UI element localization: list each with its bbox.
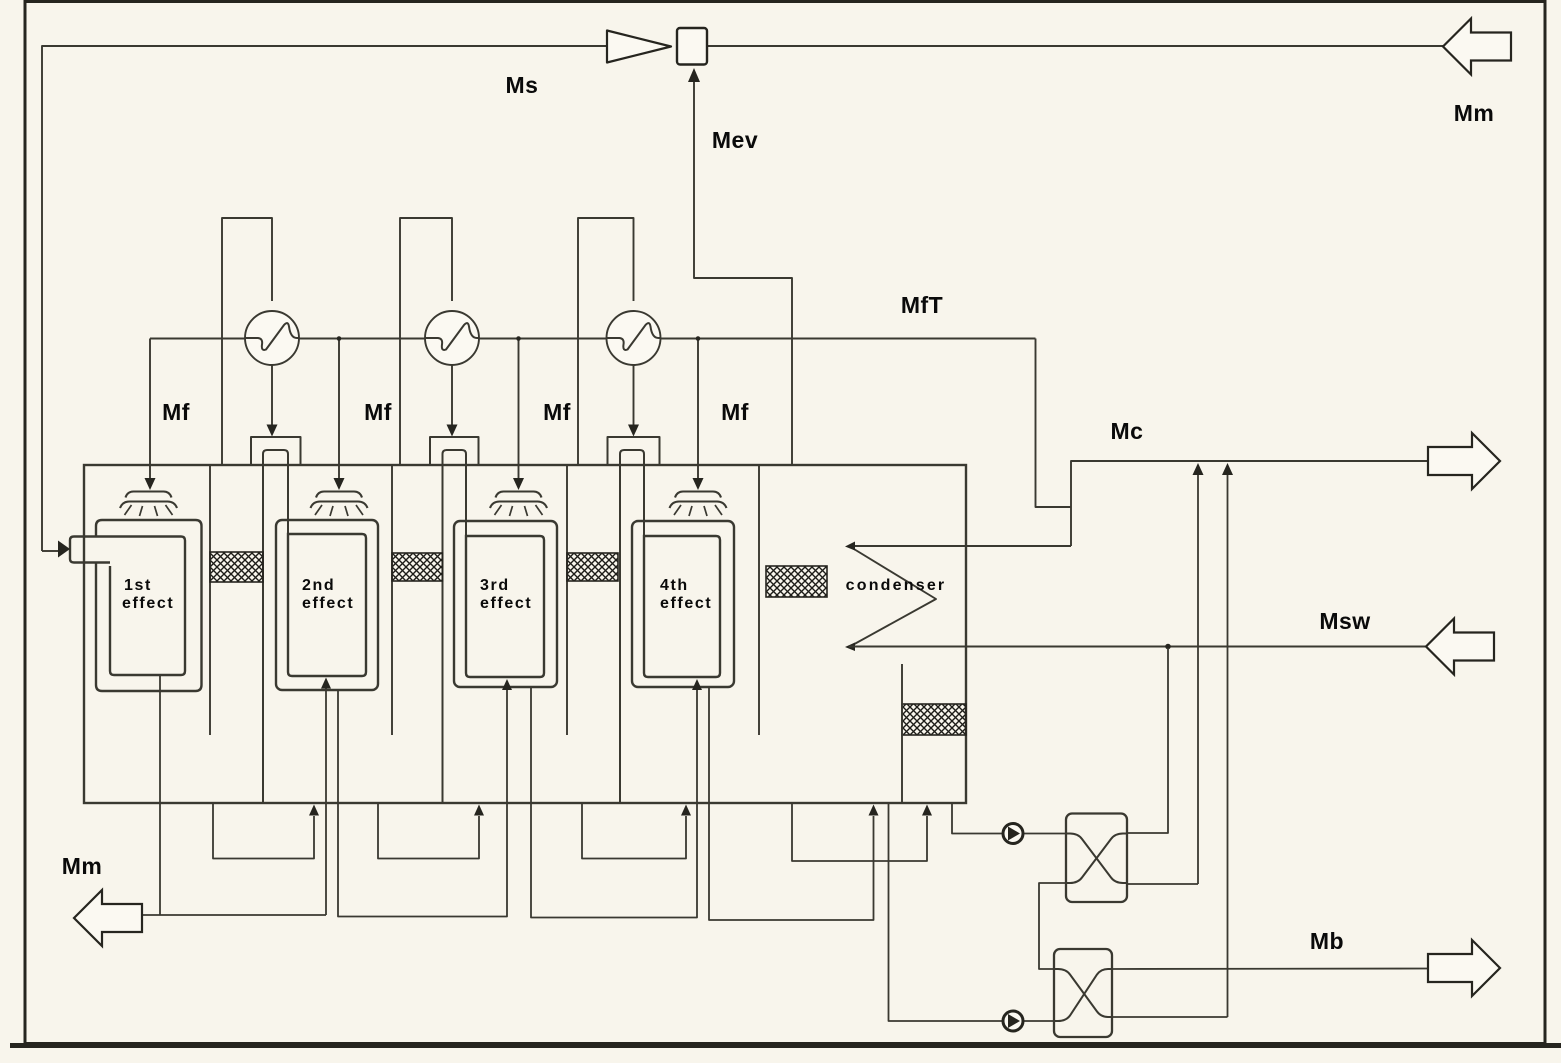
demister hatch 2: [392, 553, 443, 581]
arrowhead vapor into preheater 1: [267, 311, 278, 323]
svg-text:Mf: Mf: [364, 399, 392, 425]
svg-text:Mf: Mf: [543, 399, 571, 425]
arrowhead Mev into ejector: [688, 68, 700, 82]
feed downcomer tube effect 4: [620, 450, 644, 803]
main evaporator shell box: [84, 465, 966, 803]
demister hatch 1: [210, 552, 263, 582]
svg-text:2nd: 2nd: [302, 577, 335, 594]
wire vapor loop effect 2 to preheater 2: [400, 218, 452, 465]
ejector mixing box: [677, 28, 707, 65]
internal partition wall 3: [566, 465, 568, 735]
svg-text:Msw: Msw: [1319, 608, 1370, 634]
block arrow Msw inlet: [1426, 619, 1494, 675]
wire Mev vapor suction line: [694, 73, 792, 465]
wire motive steam line from Mm arrow to ejector: [707, 45, 1443, 47]
vessel 4th effect inner wall: [644, 536, 720, 677]
wire feed drop to effect 2 nozzle: [338, 339, 340, 479]
wire MfT down segment to condenser outlet: [1036, 339, 1072, 508]
wire distillate riser 1 to Mc: [1197, 474, 1199, 884]
demister hatch 3: [567, 553, 618, 581]
wire feed water header MfT: [150, 338, 1036, 340]
preheater heat exchanger HX3: [607, 311, 661, 365]
vessel 1st effect inner wall and feed channel: [70, 537, 185, 676]
vessel 3rd effect inner wall: [466, 536, 544, 677]
svg-text:Mm: Mm: [62, 853, 103, 879]
arrowhead vapor into riser 2: [447, 425, 458, 437]
wire Mc line: [1071, 461, 1430, 546]
valve box V2: [1054, 949, 1112, 1037]
wire brine blowdown to pump 2: [889, 803, 1055, 1021]
vessel 2nd effect inner wall: [288, 534, 366, 676]
vapor riser duct 3: [608, 437, 660, 465]
pump P1: [1003, 824, 1023, 844]
arrowhead vapor into riser 3: [628, 425, 639, 437]
arrowhead feed into 1st effect: [42, 550, 58, 552]
internal partition wall 2: [391, 465, 393, 735]
vessel 3rd effect outer wall: [454, 521, 557, 687]
wire distillate loop 2: [531, 687, 697, 918]
block arrow Mm inlet top right: [1443, 19, 1511, 75]
svg-text:Mf: Mf: [162, 399, 190, 425]
vapor riser duct 1: [251, 437, 301, 465]
spray nozzle effect 2: [316, 492, 362, 498]
wire distillate loop 1: [338, 690, 507, 917]
wire vapor loop effect 1 to preheater 1: [222, 218, 272, 465]
block arrow Mm product outlet: [74, 890, 142, 946]
vapor riser duct 2: [430, 437, 479, 465]
wire brine flash U-loop 2: [378, 803, 479, 859]
wire brine flash U-loop 4: [792, 803, 927, 861]
demister hatch 5: [902, 704, 966, 735]
svg-text:effect: effect: [122, 595, 174, 612]
condenser bottom compartment wall: [901, 664, 903, 803]
wire distillate manifold to Mm: [142, 914, 327, 916]
svg-text:4th: 4th: [660, 577, 689, 594]
vessel 2nd effect outer wall: [276, 520, 378, 690]
wire Msw seawater line: [849, 646, 1426, 648]
wire vapor loop effect 3 to preheater 3: [578, 218, 634, 465]
block arrow Mb outlet: [1428, 940, 1500, 996]
pump P2: [1003, 1011, 1023, 1031]
wire V1 to distillate riser 1: [1127, 883, 1198, 885]
svg-text:condenser: condenser: [846, 577, 947, 594]
feed downcomer tube effect 2: [263, 450, 288, 803]
wire feed drop to effect 3 nozzle: [518, 339, 520, 479]
spray nozzle effect 3: [496, 492, 542, 498]
svg-text:Mc: Mc: [1111, 418, 1144, 444]
svg-text:effect: effect: [660, 595, 712, 612]
wire distillate riser 2 to Mc: [1227, 474, 1229, 1017]
svg-text:Mf: Mf: [721, 399, 749, 425]
wire distillate loop 3: [709, 687, 874, 920]
ejector nozzle cone: [607, 31, 671, 63]
preheater heat exchanger HX2: [425, 311, 479, 365]
wire Ms steam line left segment: [42, 46, 607, 551]
svg-text:Ms: Ms: [506, 72, 539, 98]
svg-text:Mev: Mev: [712, 127, 758, 153]
wire condensing vapor through HX3 to riser: [633, 365, 635, 425]
wire condensing vapor through HX1 to riser: [271, 365, 273, 425]
svg-text:Mb: Mb: [1310, 928, 1344, 954]
internal partition wall 1: [209, 465, 211, 735]
wire Mb brine line: [1112, 968, 1433, 971]
wire feed drop to effect 1 nozzle: [149, 339, 151, 479]
svg-text:1st: 1st: [124, 577, 152, 594]
wire condensate to pump 1: [952, 803, 1066, 834]
wire 2nd effect drain with arrow: [325, 688, 327, 915]
wire V2 to distillate riser 2: [1112, 1016, 1228, 1018]
vessel 4th effect outer wall: [632, 521, 734, 687]
svg-text:3rd: 3rd: [480, 577, 510, 594]
spray nozzle effect 1: [126, 492, 172, 498]
svg-text:MfT: MfT: [901, 292, 943, 318]
feed downcomer tube effect 3: [443, 450, 467, 803]
svg-text:effect: effect: [302, 595, 354, 612]
wire 1st effect drain: [159, 675, 161, 915]
arrowhead vapor into riser 1: [267, 425, 278, 437]
demister hatch 4: [766, 566, 827, 597]
internal partition wall 4: [758, 465, 760, 735]
wire feed drop to effect 4 nozzle: [697, 339, 699, 479]
preheater heat exchanger HX1: [245, 311, 299, 365]
spray nozzle effect 4: [675, 492, 721, 498]
block arrow Mc outlet: [1428, 433, 1500, 489]
arrowhead vapor into preheater 2: [447, 311, 458, 323]
svg-text:Mm: Mm: [1454, 100, 1495, 126]
wire V1 to Msw junction: [1127, 648, 1168, 833]
wire V1 to V2: [1039, 883, 1066, 969]
condenser coil: [849, 545, 1071, 547]
wire brine flash U-loop 1: [213, 803, 314, 859]
wire brine flash U-loop 3: [582, 803, 686, 859]
vessel 1st effect outer wall: [96, 520, 202, 691]
valve box V1: [1066, 814, 1127, 903]
wire condensing vapor through HX2 to riser: [451, 365, 453, 425]
arrowhead vapor into preheater 3: [628, 311, 639, 323]
svg-text:effect: effect: [480, 595, 532, 612]
